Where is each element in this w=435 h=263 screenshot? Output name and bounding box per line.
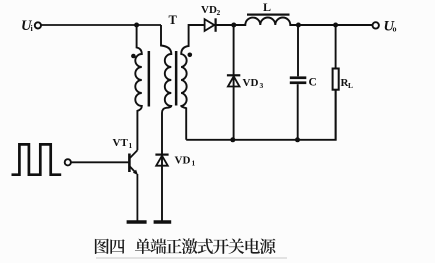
wire: RL branch upper	[335, 25, 337, 69]
node: junction Ui/primary	[134, 23, 139, 28]
svg-text:i: i	[31, 24, 34, 33]
secondary polarity dot	[188, 53, 193, 58]
transistor VT1	[128, 154, 131, 173]
ground under VT1 emitter	[127, 220, 147, 223]
resistor RL	[333, 69, 339, 90]
svg-text:L: L	[348, 81, 353, 90]
square wave source symbol	[12, 144, 62, 174]
wire: RL branch lower	[335, 90, 337, 140]
svg-text:VD: VD	[201, 4, 217, 16]
transformer T primary winding	[135, 25, 142, 150]
primary polarity dot	[131, 54, 136, 59]
caption underline artifact	[96, 257, 287, 259]
svg-text:C: C	[309, 77, 317, 89]
inductor L core bar	[247, 14, 290, 16]
ground under VD1	[154, 220, 172, 223]
wire: input top rail	[41, 24, 161, 26]
diode VD1	[155, 154, 168, 156]
output terminal	[373, 22, 379, 28]
svg-text:VT: VT	[113, 137, 129, 149]
wire: output top rail with inductor	[216, 18, 373, 25]
transformer core bar right	[175, 51, 178, 106]
node: L/C junction	[296, 23, 301, 28]
node: RL junction	[333, 23, 338, 28]
svg-text:VD: VD	[243, 77, 259, 89]
input terminal	[35, 22, 41, 28]
node: VD2/VD3/L junction	[231, 23, 236, 28]
transformer secondary winding	[181, 25, 205, 140]
wire: output bottom rail	[186, 90, 336, 140]
svg-text:VD: VD	[175, 155, 191, 167]
svg-text:2: 2	[217, 8, 221, 17]
wire: C branch lower	[297, 84, 299, 140]
node: C bottom junction	[295, 137, 300, 142]
svg-text:1: 1	[129, 141, 133, 150]
svg-text:o: o	[393, 25, 397, 34]
diode VD2	[205, 19, 215, 31]
caption: figure 4 single-ended forward switching power supply	[95, 238, 276, 254]
svg-text:1: 1	[192, 159, 196, 168]
wire: VD3 branch	[233, 25, 235, 140]
capacitor C	[290, 76, 307, 79]
node: VD3 bottom junction	[230, 137, 235, 142]
wire: base drive	[71, 161, 128, 163]
svg-text:T: T	[169, 13, 178, 27]
diode VD3	[227, 74, 240, 76]
wire: C branch upper	[297, 25, 299, 76]
transformer reset winding	[161, 25, 171, 221]
transformer core bar left	[148, 51, 151, 107]
drive input terminal	[65, 159, 71, 165]
svg-text:3: 3	[260, 81, 264, 90]
svg-text:L: L	[263, 0, 271, 14]
